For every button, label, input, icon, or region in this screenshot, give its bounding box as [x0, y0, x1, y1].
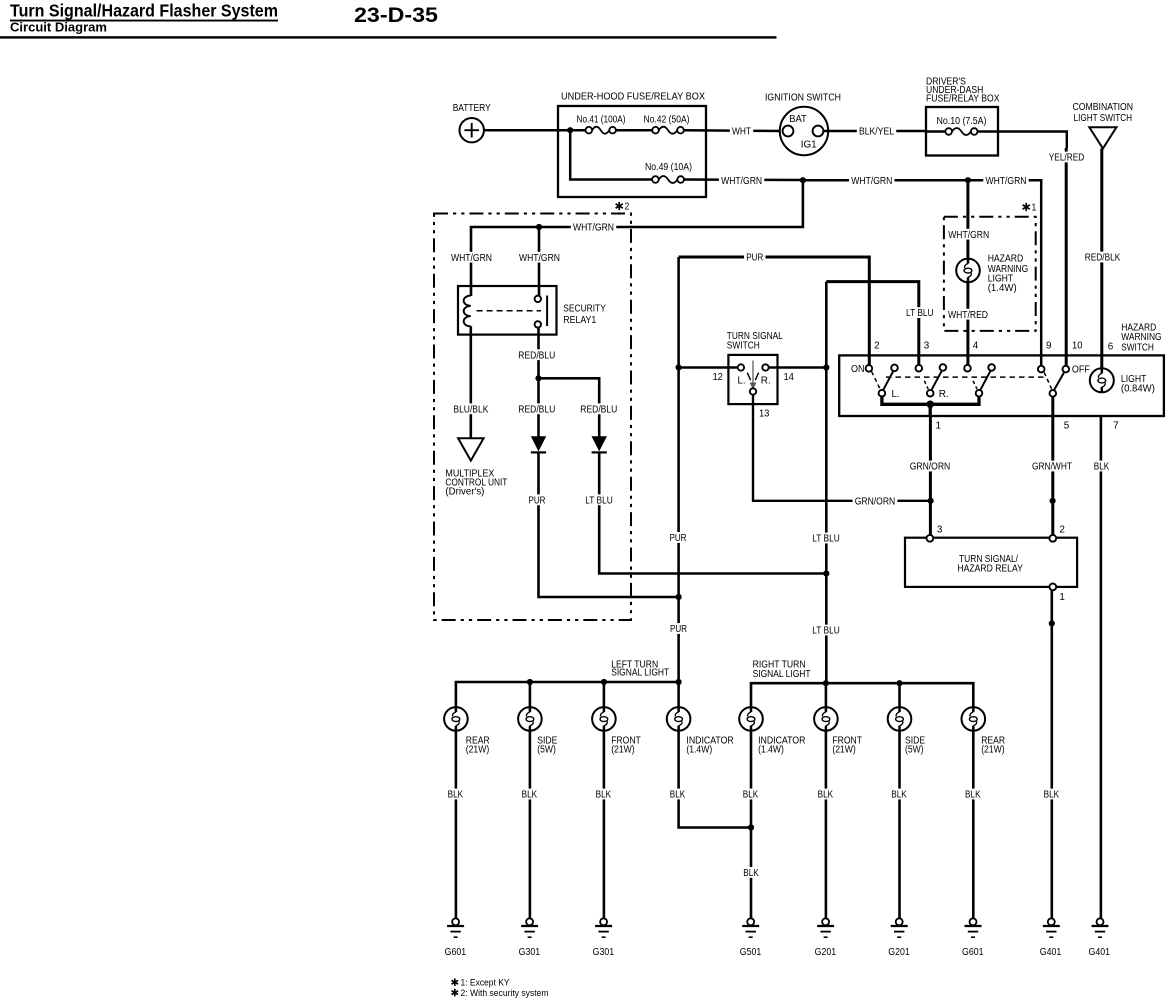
- svg-text:LT BLU: LT BLU: [812, 626, 840, 637]
- svg-text:10: 10: [1072, 341, 1083, 352]
- wire SIDE right drop: [898, 683, 901, 707]
- wire GRN/WHT terminal 5 to relay terminal 2: [1051, 416, 1054, 535]
- terminal 2 of hazard switch: [866, 365, 873, 372]
- pin label 6: [1108, 342, 1114, 353]
- label WHT/GRN inside *1 box: [946, 229, 991, 241]
- label WHT/GRN rail 3: [983, 175, 1028, 187]
- footnote *1 Except KY: [452, 978, 511, 989]
- dashed box *1 (except KY): [944, 217, 1036, 331]
- svg-text:2: 2: [625, 201, 630, 212]
- svg-text:LIGHT SWITCH: LIGHT SWITCH: [1074, 113, 1133, 124]
- svg-text:BAT: BAT: [789, 114, 807, 125]
- ground G601 (left rear): [447, 918, 464, 937]
- svg-text:(21W): (21W): [832, 745, 855, 756]
- label G601 (left rear): [445, 947, 467, 958]
- label REAR (21W): [981, 736, 1005, 756]
- pin label 1 of relay: [1059, 592, 1065, 603]
- combination light switch: [1089, 127, 1116, 148]
- svg-text:1: 1: [936, 421, 942, 432]
- label G601 (right rear): [962, 947, 984, 958]
- label GRN/ORN horizontal: [853, 495, 898, 507]
- svg-text:SIGNAL LIGHT: SIGNAL LIGHT: [753, 669, 811, 680]
- wire WHT/GRN rail segment 1: [684, 178, 803, 181]
- svg-text:YEL/RED: YEL/RED: [1049, 153, 1085, 164]
- junction indicator grounds: [748, 824, 754, 830]
- wire terminal 1 down from bus: [929, 404, 932, 416]
- label WHT/GRN right branch: [517, 252, 562, 264]
- header rule: [0, 36, 777, 38]
- pin label 5: [1064, 420, 1070, 431]
- terminal IG1 of ignition switch: [813, 126, 824, 137]
- svg-text:BLK: BLK: [1094, 462, 1110, 473]
- junction WHT/GRN inside *2 box: [536, 224, 542, 230]
- label BLK (indicators): [741, 789, 761, 801]
- svg-text:3: 3: [924, 341, 930, 352]
- svg-text:(21W): (21W): [981, 745, 1004, 756]
- hazard warning switch box: [839, 355, 1164, 416]
- bulb left front turn signal light FRONT (21W): [592, 707, 616, 731]
- label BLK below relay: [1042, 789, 1062, 801]
- relay contact upper terminal: [535, 296, 541, 302]
- wire LT BLU diode D2 to LT BLU net: [599, 452, 826, 573]
- label LT BLU at terminal 3: [904, 307, 936, 319]
- footnote *2 With security system: [452, 988, 549, 999]
- ground G201 (right side): [891, 918, 908, 937]
- wire BLK left side lamp to ground G301: [529, 731, 532, 918]
- bulb left side turn signal light SIDE (5W): [518, 707, 542, 731]
- label G301 (left front): [593, 947, 615, 958]
- label BLK (right front): [815, 789, 835, 801]
- junction LT BLU at turn signal switch 14: [823, 364, 829, 370]
- security relay SECURITY RELAY1 box: [458, 286, 557, 335]
- wire BLK terminal 7 to ground G401: [1100, 416, 1103, 918]
- turn signal switch actuator arrow: [750, 361, 757, 390]
- svg-text:G401: G401: [1040, 947, 1062, 958]
- label RED/BLU upper: [516, 349, 557, 361]
- label REAR (21W): [466, 736, 490, 756]
- wire PUR diode D1 to PUR net: [539, 452, 679, 597]
- svg-text:G301: G301: [519, 947, 541, 958]
- dashed throw at pole C contact: [973, 381, 977, 389]
- wire into fuse No.10: [926, 130, 946, 132]
- battery: [460, 118, 484, 142]
- label R. in hazard switch: [939, 389, 949, 400]
- terminal 3 of relay: [927, 535, 934, 542]
- wire PUR vertical trunk: [677, 257, 680, 682]
- svg-text:WHT/GRN: WHT/GRN: [986, 176, 1027, 187]
- dashed throw at pole B contact: [924, 381, 928, 389]
- svg-text:IG1: IG1: [801, 139, 817, 150]
- svg-text:GRN/WHT: GRN/WHT: [1032, 462, 1072, 473]
- label MULTIPLEX CONTROL UNIT (Driver's): [445, 469, 507, 498]
- label G401 (relay): [1040, 947, 1062, 958]
- label RIGHT TURN SIGNAL LIGHT: [753, 659, 811, 680]
- label G401 (switch): [1089, 947, 1111, 958]
- label HAZARD WARNING SWITCH: [1121, 323, 1162, 354]
- label WHT/RED: [946, 309, 990, 321]
- switch blade pole A: [883, 371, 893, 390]
- wire BLK right rear lamp to ground G601: [972, 731, 975, 918]
- label No.41 (100A): [577, 114, 626, 125]
- terminal 14 of turn signal switch: [762, 364, 768, 370]
- svg-text:12: 12: [712, 372, 723, 383]
- label TURN SIGNAL/ HAZARD RELAY: [957, 554, 1023, 575]
- relay contact bar: [546, 296, 548, 327]
- contact pole C of hazard switch: [976, 390, 983, 397]
- label BLK (right side): [889, 789, 909, 801]
- svg-text:WHT/RED: WHT/RED: [948, 310, 988, 321]
- terminal 10 of hazard switch (OFF): [1063, 366, 1070, 373]
- svg-text:G201: G201: [888, 947, 910, 958]
- under-hood fuse/relay box: [558, 106, 706, 197]
- svg-text:2: 2: [1059, 524, 1065, 535]
- wire IG1 to under-dash fuse box: [824, 130, 927, 133]
- ground G601 (right rear): [965, 918, 982, 937]
- contact L of hazard switch: [879, 390, 886, 397]
- bulb right turn indicator light INDICATOR (1.4W): [739, 707, 763, 731]
- pole B pivot terminal: [940, 364, 947, 371]
- pin label 4: [973, 341, 979, 352]
- pin label 1: [936, 421, 942, 432]
- svg-text:14: 14: [783, 372, 794, 383]
- svg-text:G601: G601: [962, 947, 984, 958]
- svg-text:5: 5: [1064, 420, 1070, 431]
- svg-text:WHT: WHT: [732, 127, 751, 138]
- wire WHT/GRN to relay contact: [538, 227, 541, 297]
- svg-text:No.41 (100A): No.41 (100A): [577, 114, 626, 125]
- label BAT: [789, 114, 807, 125]
- svg-text:(Driver's): (Driver's): [445, 487, 484, 498]
- svg-text:G201: G201: [815, 947, 837, 958]
- junction left bus at INDICATOR: [676, 679, 682, 685]
- label FRONT (21W): [832, 736, 862, 756]
- label FRONT (21W): [611, 736, 641, 756]
- driver's under-dash fuse/relay box: [926, 107, 998, 156]
- svg-text:BLK: BLK: [522, 790, 538, 801]
- junction battery feed: [567, 127, 573, 133]
- pin label 3 of relay: [937, 524, 943, 535]
- label GRN/ORN vertical: [908, 461, 953, 473]
- svg-text:WHT/GRN: WHT/GRN: [451, 253, 492, 264]
- wire RED/BLU left branch to diode: [537, 378, 540, 436]
- fuse No.10: [945, 128, 977, 135]
- svg-text:Turn Signal/Hazard Flasher Sys: Turn Signal/Hazard Flasher System: [10, 1, 278, 21]
- svg-text:L.: L.: [892, 389, 900, 400]
- svg-text:BLK: BLK: [670, 790, 686, 801]
- contact R of hazard switch: [927, 390, 934, 397]
- ground G401 (switch): [1092, 918, 1109, 937]
- wire FRONT left drop: [603, 682, 606, 707]
- svg-text:9: 9: [1046, 341, 1052, 352]
- svg-text:WHT/GRN: WHT/GRN: [573, 223, 614, 234]
- turn signal switch box: [728, 355, 777, 404]
- wire GRN/ORN terminal 1 to relay terminal 3: [929, 416, 932, 535]
- wire BLK left front lamp to ground G301: [603, 731, 606, 918]
- terminal 3 of hazard switch: [916, 365, 923, 372]
- wire BLK right side lamp to ground G201: [898, 731, 901, 918]
- label BLK (joined indicators): [741, 867, 761, 879]
- wire BLK left rear lamp to ground G601: [455, 731, 458, 918]
- svg-text:No.42 (50A): No.42 (50A): [644, 114, 690, 125]
- bulb right front turn signal light FRONT (21W): [814, 707, 838, 731]
- label SIDE (5W): [537, 736, 557, 756]
- wire PUR junction to terminal 12: [679, 366, 738, 369]
- svg-text:GRN/ORN: GRN/ORN: [910, 462, 951, 473]
- label YEL/RED: [1047, 152, 1087, 164]
- svg-text:WHT/GRN: WHT/GRN: [948, 230, 989, 241]
- label HAZARD WARNING LIGHT (1.4W): [988, 253, 1029, 293]
- ground G401 (relay): [1043, 918, 1060, 937]
- svg-text:L.: L.: [738, 375, 746, 386]
- turn signal/hazard relay box: [905, 538, 1077, 587]
- label R. in turn signal switch: [761, 375, 771, 386]
- label BLK (left indicator): [668, 789, 688, 801]
- label G501 (indicators): [740, 947, 762, 958]
- svg-text:G401: G401: [1089, 947, 1111, 958]
- label WHT/GRN on branch: [571, 222, 616, 234]
- switch blade pole C: [980, 371, 990, 390]
- pole C pivot terminal: [988, 364, 995, 371]
- svg-text:(1.4W): (1.4W): [758, 745, 784, 756]
- label L. in hazard switch: [892, 389, 900, 400]
- bulb right side turn signal light SIDE (5W): [888, 707, 912, 731]
- junction PUR net: [676, 594, 682, 600]
- svg-text:ON: ON: [851, 364, 865, 375]
- relay coil: [464, 296, 471, 327]
- label L. in turn signal switch: [738, 375, 746, 386]
- svg-text:PUR: PUR: [529, 495, 546, 506]
- svg-text:7: 7: [1113, 420, 1119, 431]
- bulb left turn indicator light INDICATOR (1.4W): [667, 707, 691, 731]
- terminal 2 of relay: [1049, 535, 1056, 542]
- svg-text:1: 1: [1032, 202, 1037, 213]
- label BLK (left side): [519, 789, 539, 801]
- junction right bus at SIDE: [896, 680, 902, 686]
- label *1: [1023, 202, 1037, 213]
- junction left bus at FRONT: [601, 679, 607, 685]
- wire YEL/RED down to hazard switch terminal 10: [1065, 148, 1068, 366]
- junction WHT/GRN at security branch: [800, 177, 806, 183]
- ground G501 (indicators): [742, 918, 759, 937]
- wire FRONT right drop: [825, 683, 828, 707]
- pin label 14: [783, 372, 794, 383]
- switch blade pole B: [932, 371, 942, 390]
- svg-text:BLK: BLK: [965, 790, 981, 801]
- ground G201 (right front): [817, 918, 834, 937]
- label DRIVER'S UNDER-DASH FUSE/RELAY BOX: [926, 76, 1000, 104]
- svg-text:R.: R.: [761, 375, 771, 386]
- label BLK (right rear): [963, 789, 983, 801]
- terminal 13 of turn signal switch: [750, 388, 756, 394]
- header subtitle "Circuit Diagram": [10, 21, 107, 35]
- junction GRN/ORN: [928, 498, 934, 504]
- svg-text:(1.4W): (1.4W): [988, 283, 1017, 294]
- bulb right rear turn signal light REAR (21W): [962, 707, 986, 731]
- svg-text:SECURITY: SECURITY: [563, 304, 606, 315]
- svg-text:SWITCH: SWITCH: [727, 340, 760, 351]
- terminal 1 of relay: [1049, 584, 1056, 591]
- svg-text:SIGNAL LIGHT: SIGNAL LIGHT: [611, 668, 669, 679]
- switch blade pole D (OFF): [1054, 372, 1064, 390]
- svg-text:RELAY1: RELAY1: [563, 315, 596, 326]
- hazard warning light bulb: [956, 259, 980, 283]
- hazard switch light bulb: [1090, 368, 1114, 392]
- multiplex control unit triangle: [458, 438, 484, 460]
- label PUR below D1: [526, 494, 547, 506]
- wire BLU/BLK coil to multiplex control unit: [469, 326, 472, 438]
- wire left indicator to right indicator ground join: [679, 731, 751, 828]
- fuse No.49: [652, 176, 684, 183]
- label G301 (left side): [519, 947, 541, 958]
- relay contact lower terminal: [535, 321, 541, 327]
- svg-text:PUR: PUR: [670, 624, 687, 635]
- svg-text:G301: G301: [593, 947, 615, 958]
- diode D2 (right): [592, 437, 607, 453]
- svg-text:FUSE/RELAY BOX: FUSE/RELAY BOX: [926, 94, 1000, 105]
- svg-text:IGNITION SWITCH: IGNITION SWITCH: [765, 93, 841, 104]
- svg-text:Circuit Diagram: Circuit Diagram: [10, 21, 107, 35]
- wire RED/BLU relay contact down: [537, 328, 540, 379]
- ignition switch: [780, 107, 828, 155]
- wire RED/BLU split to right branch: [539, 378, 600, 436]
- bulb left rear turn signal light REAR (21W): [444, 707, 468, 731]
- terminal 9 of hazard switch: [1038, 366, 1045, 373]
- svg-text:(0.84W): (0.84W): [1121, 383, 1155, 394]
- wire box entry to fuse No.41: [558, 129, 586, 132]
- fuse No.41: [586, 127, 616, 134]
- svg-text:13: 13: [759, 408, 770, 419]
- svg-text:(21W): (21W): [611, 745, 634, 756]
- wire BLK right front lamp to ground G201: [825, 731, 828, 918]
- svg-text:WHT/GRN: WHT/GRN: [519, 253, 560, 264]
- dashed throw terminal 9 to OFF contact: [1044, 372, 1051, 388]
- label G201 (right side): [888, 947, 910, 958]
- junction WHT/GRN at hazard-light branch: [965, 177, 971, 183]
- svg-text:No.10 (7.5A): No.10 (7.5A): [937, 116, 987, 127]
- wire OFF contact down to terminal 5: [1051, 397, 1054, 416]
- label SECURITY RELAY1: [563, 304, 606, 327]
- turn signal switch throw mark L: [747, 373, 750, 381]
- svg-text:WHT/GRN: WHT/GRN: [851, 176, 892, 187]
- ground G301 (left front): [595, 918, 612, 937]
- label PUR trunk: [667, 532, 688, 544]
- label BLK (left front): [593, 789, 613, 801]
- svg-text:RED/BLU: RED/BLU: [580, 404, 617, 415]
- header page number 23-D-35: [354, 3, 438, 27]
- svg-text:GRN/ORN: GRN/ORN: [855, 496, 896, 507]
- svg-text:2: 2: [874, 341, 880, 352]
- svg-text:23-D-35: 23-D-35: [354, 3, 438, 27]
- pin label 2 of relay: [1059, 524, 1065, 535]
- label WHT/GRN rail 1: [719, 175, 764, 187]
- svg-text:WHT/GRN: WHT/GRN: [721, 176, 762, 187]
- label BLU/BLK: [451, 403, 490, 415]
- svg-text:BLK: BLK: [1044, 790, 1060, 801]
- junction RED/BLU split: [535, 375, 541, 381]
- wire WHT/GRN rail segment 2: [803, 179, 968, 182]
- wire terminal 14 to LT BLU junction: [769, 366, 827, 369]
- svg-text:LT BLU: LT BLU: [812, 534, 840, 545]
- label WHT/GRN left branch: [449, 252, 494, 264]
- label SIDE (5W): [905, 736, 925, 756]
- svg-text:(5W): (5W): [537, 745, 556, 756]
- svg-text:BLK/YEL: BLK/YEL: [859, 127, 894, 138]
- wire PUR horizontal to hazard switch terminal 2: [679, 257, 870, 365]
- label PUR above left lamps: [668, 623, 689, 635]
- svg-text:LT BLU: LT BLU: [906, 308, 934, 319]
- wire RED/BLK combination light switch to hazard switch terminal 6: [1100, 149, 1103, 370]
- svg-text:OFF: OFF: [1072, 365, 1090, 376]
- svg-text:6: 6: [1108, 342, 1114, 353]
- terminal BAT of ignition switch: [783, 126, 794, 137]
- label No.10 (7.5A): [937, 116, 987, 127]
- svg-text:BLK: BLK: [743, 868, 759, 879]
- junction left bus at SIDE: [527, 679, 533, 685]
- label WHT/GRN rail 2: [849, 175, 894, 187]
- svg-text:COMBINATION: COMBINATION: [1073, 102, 1134, 113]
- label GRN/WHT: [1030, 461, 1074, 473]
- svg-text:LT BLU: LT BLU: [585, 495, 613, 506]
- pin label 13: [759, 408, 770, 419]
- label IGNITION SWITCH: [765, 93, 841, 104]
- svg-text:HAZARD: HAZARD: [988, 253, 1024, 264]
- label RED/BLK: [1083, 252, 1123, 264]
- svg-text:(21W): (21W): [466, 745, 489, 756]
- svg-text:PUR: PUR: [746, 253, 763, 264]
- diode D1 (left): [531, 437, 546, 453]
- svg-text:BLK: BLK: [448, 790, 464, 801]
- wire hazard switch output bus: [882, 397, 979, 405]
- label IG1: [801, 139, 817, 150]
- wire GRN/ORN terminal 13 to relay junction: [753, 395, 931, 501]
- terminal 4 of hazard switch: [964, 365, 971, 372]
- wire BLK indicators lamp to ground G501: [750, 731, 753, 918]
- wire right lamp bus: [751, 683, 973, 707]
- terminal 12 of turn signal switch: [738, 364, 744, 370]
- label LT BLU above right lamps: [810, 625, 842, 637]
- wire relay terminal 1 to ground G401: [1051, 590, 1054, 918]
- label LT BLU trunk: [810, 533, 842, 545]
- svg-text:SWITCH: SWITCH: [1121, 342, 1154, 353]
- svg-text:(5W): (5W): [905, 745, 924, 756]
- relay actuation dashed link: [477, 310, 541, 312]
- label No.49 (10A): [645, 162, 692, 173]
- label INDICATOR (1.4W): [758, 736, 805, 756]
- svg-text:G601: G601: [445, 947, 467, 958]
- label LEFT TURN SIGNAL LIGHT: [611, 659, 669, 678]
- label TURN SIGNAL SWITCH: [727, 331, 783, 352]
- junction on GRN/WHT wire: [1050, 498, 1056, 504]
- label BLK (left rear): [445, 789, 465, 801]
- pin label 12: [712, 372, 723, 383]
- label OFF: [1072, 365, 1090, 376]
- label RED/BLU right: [578, 403, 619, 415]
- wire fuse No.42 to WHT label: [684, 129, 783, 132]
- svg-text:BATTERY: BATTERY: [453, 103, 491, 114]
- svg-text:HAZARD RELAY: HAZARD RELAY: [957, 563, 1023, 574]
- label LT BLU below D2: [583, 494, 615, 506]
- wire WHT/GRN branch down-left into security box: [471, 180, 803, 296]
- junction below relay: [1049, 620, 1055, 626]
- wire fuse No.41 to fuse No.42: [616, 129, 652, 132]
- label UNDER-HOOD FUSE/RELAY BOX: [561, 92, 705, 103]
- label LIGHT (0.84W): [1121, 374, 1155, 395]
- pin label 3: [924, 341, 930, 352]
- wire left lamp bus: [456, 682, 679, 707]
- svg-text:(1.4W): (1.4W): [686, 745, 712, 756]
- label No.42 (50A): [644, 114, 690, 125]
- junction PUR at turn signal switch 12: [676, 364, 682, 370]
